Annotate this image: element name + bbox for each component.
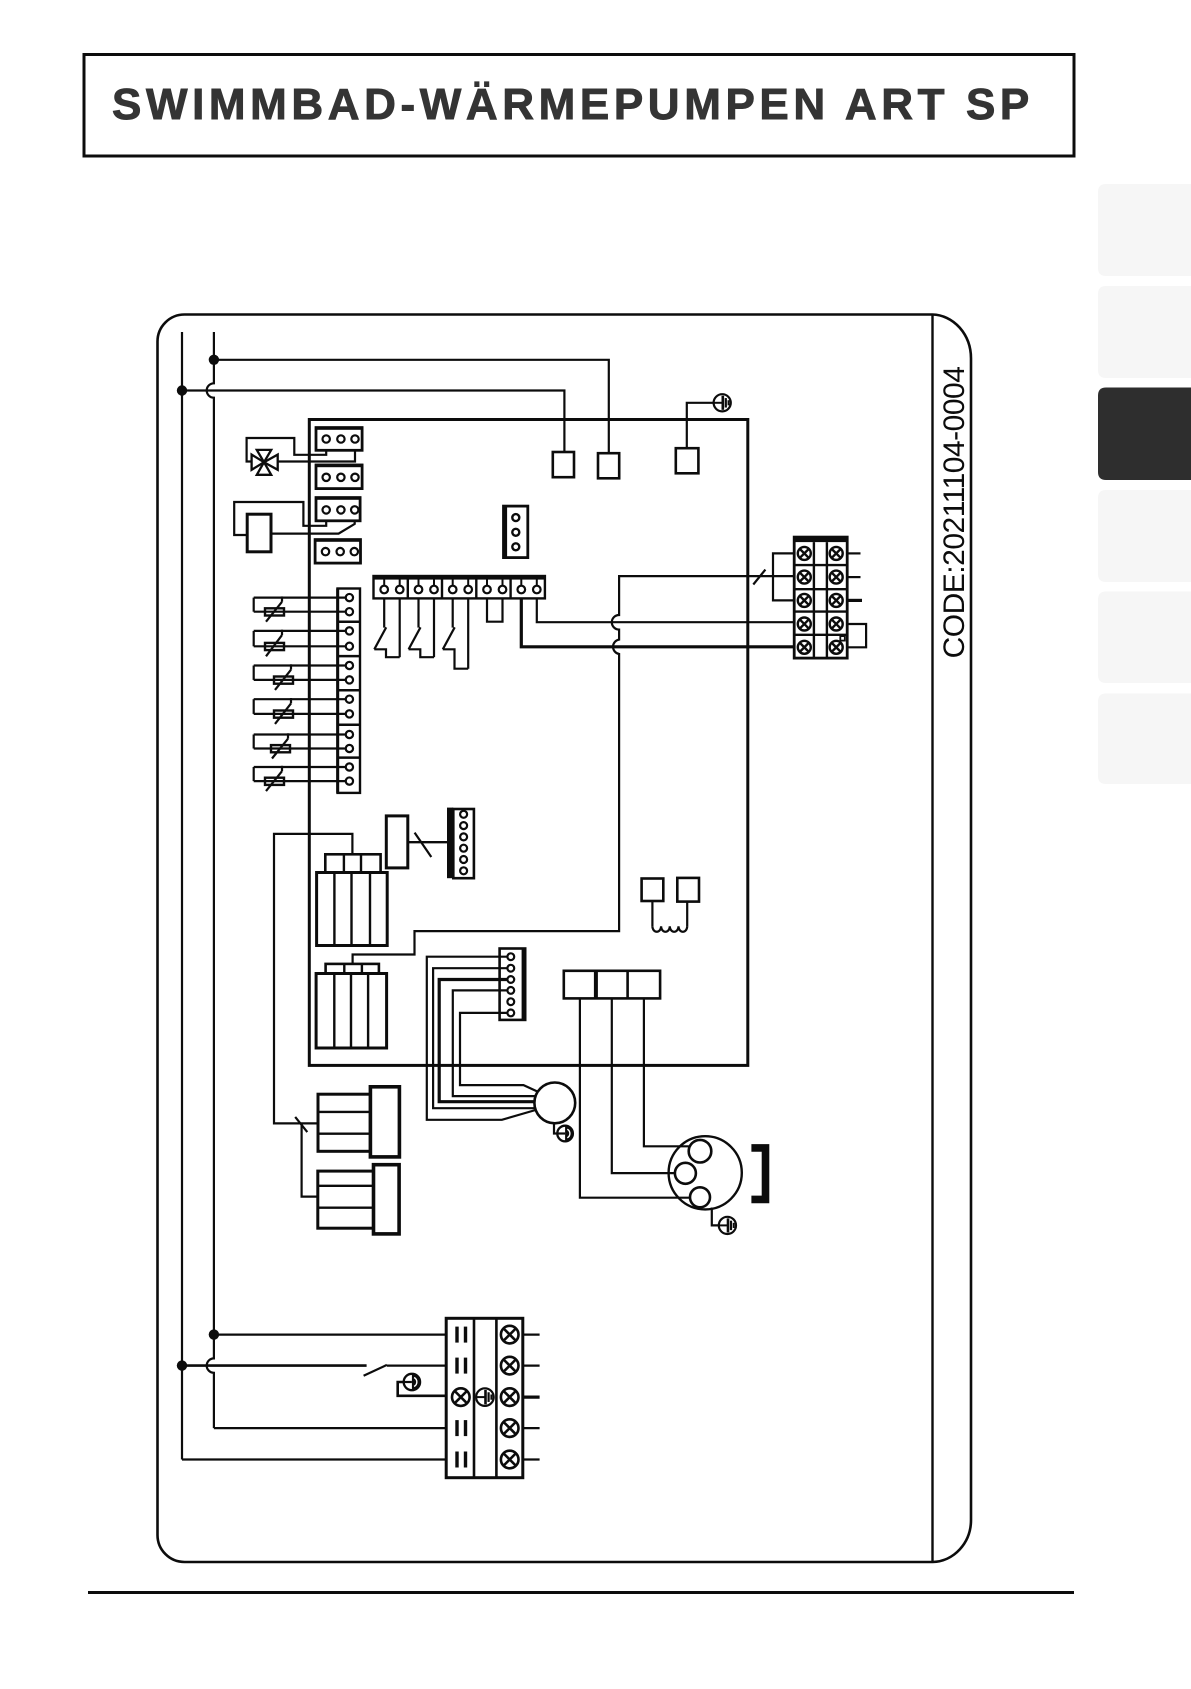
wire S3-earth <box>687 403 714 448</box>
thermistor RT5 <box>254 733 346 758</box>
heater coil HT1 <box>652 901 687 932</box>
title box <box>84 55 1074 157</box>
wire J3p4-M1 <box>453 990 536 1096</box>
fan motor M2 <box>669 1136 742 1209</box>
terminal strip CN5 <box>374 576 545 598</box>
thermistor RT1 <box>254 596 346 621</box>
svg-text:CODE:20211104-0004: CODE:20211104-0004 <box>938 367 971 659</box>
wire KM1-CN3b <box>271 521 355 534</box>
wire M1-earth <box>554 1123 558 1133</box>
connector CN2 <box>315 464 363 489</box>
wire K1 feed <box>274 834 352 1124</box>
terminal block TB1 <box>446 1318 539 1477</box>
wire J3p1-M1 <box>427 957 536 1120</box>
pressure switch SW2 <box>409 598 434 657</box>
edge connector CN8 <box>447 808 474 879</box>
relay K1 <box>317 854 388 945</box>
side index tabs <box>1098 184 1191 784</box>
wire TB3c3-M2 <box>644 998 689 1146</box>
svg-text:SWIMMBAD-WÄRMEPUMPEN ART SP: SWIMMBAD-WÄRMEPUMPEN ART SP <box>112 80 1034 129</box>
terminal block TB2 <box>794 537 847 658</box>
fan pin P2 <box>675 1163 696 1184</box>
compressor M1 <box>534 1083 575 1124</box>
wire TB1 r2a <box>182 1364 367 1367</box>
4-way valve Y1 <box>252 450 278 475</box>
capacitor bracket C1 <box>751 1148 765 1200</box>
connector CN7 <box>504 506 528 557</box>
wire J3p3-M1 <box>439 980 534 1102</box>
switch blade Q1 <box>364 1365 387 1376</box>
wire TB1 r1 <box>214 1333 446 1335</box>
jumper CN5c4 <box>487 598 503 621</box>
wire valve-CN1b <box>278 450 355 461</box>
switch blade F2 <box>295 1117 307 1132</box>
wire TB1 r2b <box>387 1364 446 1366</box>
thermistor RT2 <box>254 630 346 657</box>
overload S1 <box>553 452 574 477</box>
connector CN4 <box>314 538 361 563</box>
wire N rail <box>207 332 214 1428</box>
node J3b <box>209 1329 219 1339</box>
earth E1 <box>714 394 731 411</box>
wire CN5-TB2r4 <box>537 598 794 622</box>
inductor L2 <box>318 1165 399 1234</box>
overload S2 <box>598 453 619 478</box>
wire E4-TB1 <box>398 1382 447 1396</box>
wire TB1 r5 <box>182 1458 446 1460</box>
wire TB2 bracket left <box>773 553 794 600</box>
fan pin P1 <box>689 1140 712 1163</box>
PCB board outline <box>309 420 748 1066</box>
wire top1 <box>214 360 609 453</box>
pressure switch SW3 <box>443 598 468 668</box>
wire TB2 stub r3 <box>847 599 862 602</box>
thermistor RT3 <box>254 664 346 690</box>
node J1 <box>209 355 219 365</box>
relay K2 <box>316 964 387 1048</box>
connector CN1 <box>315 426 363 450</box>
wire J3p6-M1 <box>460 1013 538 1092</box>
terminal block TB3 <box>564 971 660 999</box>
pin strip CN6 <box>336 589 360 793</box>
node J4b <box>177 1360 187 1370</box>
fan pin P3 <box>690 1187 710 1207</box>
wire KM1-CN3a <box>234 502 326 535</box>
code text <box>938 367 971 659</box>
capacitor C2 <box>386 816 408 868</box>
earth E3 <box>719 1217 736 1234</box>
thermistor RT4 <box>254 698 346 724</box>
wire CN5-TB2r5 <box>521 598 794 646</box>
pin block H2 <box>677 878 699 902</box>
switch blade F1 <box>753 570 765 585</box>
wire TB3c1-M2 <box>580 998 690 1197</box>
inductor L1 <box>318 1087 399 1157</box>
footer rule <box>88 1591 1074 1594</box>
wire TB1 r4 <box>214 1427 446 1429</box>
wire TB2r2-K2 <box>353 576 795 964</box>
wire C2-CN8 <box>408 841 447 843</box>
connector CN3 <box>315 496 361 520</box>
earth E2 <box>557 1126 573 1142</box>
wire L2 branch <box>302 1123 318 1196</box>
wire valve-CN1a <box>247 438 327 462</box>
contactor coil KM1 <box>247 514 271 552</box>
wire M2-earth <box>712 1208 719 1226</box>
code column separator <box>931 315 933 1563</box>
outer rounded border <box>158 315 972 1563</box>
pin block H1 <box>642 879 664 902</box>
wire TB2 bracket right <box>847 624 866 647</box>
overload S3 <box>676 448 699 473</box>
node J2 <box>177 385 187 395</box>
wire TB2 stub r1 <box>847 552 860 554</box>
connector J3 <box>500 949 526 1020</box>
switch blade F3 <box>415 833 432 857</box>
wire top2 <box>182 391 564 453</box>
notch TB2 <box>840 636 845 641</box>
wire L rail <box>181 332 183 1460</box>
wire TB2 stub r2 <box>847 576 860 578</box>
thermistor RT6 <box>254 766 346 791</box>
pressure switch SW1 <box>374 598 399 657</box>
wire J3p2-M1 <box>433 968 535 1108</box>
wire TB3c2-M2 <box>612 998 675 1173</box>
earth E4 <box>404 1374 420 1390</box>
